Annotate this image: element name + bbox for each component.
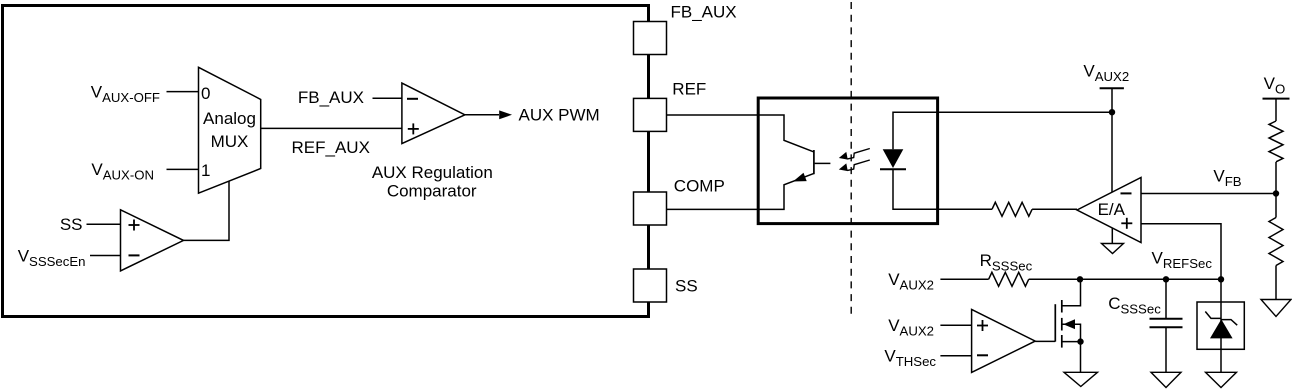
ground below EA [1102, 228, 1124, 254]
wire mux output REF_AUX to comparator plus input [261, 127, 402, 129]
svg-text:Comparator: Comparator [387, 181, 477, 200]
wire RSSSec to VREFSec node [1029, 278, 1221, 280]
phototransistor emitter arrow [793, 173, 807, 182]
svg-text:SS: SS [675, 276, 698, 295]
plus sign U5 [977, 320, 988, 331]
resistor RSSSec [989, 272, 1029, 286]
svg-text:1: 1 [201, 161, 210, 180]
ground below capacitor [1151, 372, 1181, 387]
isolation barrier dashed line [850, 2, 852, 318]
wire comparator output [465, 114, 499, 116]
comparator U2 AUX regulation [402, 83, 465, 144]
MOSFET Q1 channel segment drain [1061, 300, 1063, 313]
wire VTHSec to U5 minus [940, 355, 971, 357]
svg-text:VAUX-OFF: VAUX-OFF [91, 82, 160, 105]
MOSFET Q1 channel segment source [1061, 335, 1063, 348]
zener D2 vertical wire [1220, 302, 1222, 349]
junction dot capacitor top [1163, 276, 1169, 282]
resistor R2 upper divider [1269, 121, 1283, 162]
svg-text:VSSSecEn: VSSSecEn [18, 246, 86, 269]
phototransistor base lead [815, 162, 831, 164]
MOSFET Q1 gate bar [1054, 304, 1056, 341]
svg-text:AUX Regulation: AUX Regulation [372, 163, 493, 182]
plus sign U2 [408, 123, 419, 134]
MOSFET Q1 channel segment body [1061, 318, 1063, 331]
ground below MOSFET source [1064, 372, 1098, 386]
light arrow 1 [839, 149, 870, 160]
LED cathode bar [880, 168, 906, 170]
junction dot source [1077, 338, 1083, 344]
LED cathode wire to resistor [893, 169, 992, 209]
minus sign EA [1121, 192, 1132, 194]
svg-text:AUX PWM: AUX PWM [519, 105, 600, 124]
svg-text:0: 0 [201, 84, 210, 103]
svg-text:CSSSec: CSSSec [1108, 294, 1161, 317]
svg-text:RSSSec: RSSSec [980, 251, 1033, 274]
op-amp EA error amplifier [1077, 178, 1141, 243]
capacitor CSSSec [1150, 279, 1183, 372]
wire VREFSec node to zener [1220, 279, 1222, 302]
wire R3 to ground [1275, 266, 1277, 300]
zener reference box [1197, 302, 1244, 349]
ground below R3 [1261, 300, 1291, 317]
zener D2 cathode bar [1205, 312, 1237, 326]
plus sign U3 [129, 220, 140, 231]
wire U3 output to mux select [184, 181, 230, 240]
svg-text:VAUX2: VAUX2 [888, 316, 934, 339]
wire REF pin to phototransistor collector [667, 115, 814, 152]
wire VAUX2 to RSSSec [940, 278, 988, 280]
ground below zener [1206, 372, 1237, 387]
svg-text:VAUX-ON: VAUX-ON [91, 160, 154, 183]
IC block outline U1 [3, 6, 649, 317]
pin SS [634, 269, 667, 302]
MOSFET Q1 body wire [1062, 324, 1081, 341]
wire zener to ground [1220, 349, 1222, 372]
wire FB_AUX to comparator minus input [373, 97, 402, 99]
svg-text:FB_AUX: FB_AUX [671, 3, 737, 22]
wire SS to U3 plus [87, 223, 121, 225]
phototransistor base bar [813, 150, 815, 174]
svg-text:SS: SS [60, 215, 83, 234]
svg-text:Analog: Analog [203, 109, 256, 128]
svg-text:VFB: VFB [1213, 167, 1241, 190]
wire EA minus input VFB [1141, 193, 1276, 195]
MOSFET Q1 drain wire [1062, 279, 1081, 306]
comparator U5 secondary [972, 309, 1036, 372]
wire resistor to EA output [1032, 208, 1077, 210]
svg-text:VAUX2: VAUX2 [888, 270, 934, 293]
svg-text:E/A: E/A [1098, 200, 1126, 219]
wire U5 output to MOSFET gate [1035, 340, 1055, 342]
phototransistor emitter and wire to COMP pin [667, 173, 814, 209]
analog mux A1 [199, 67, 261, 193]
wire EA plus input to VREFSec node [1141, 224, 1221, 279]
junction dot VFB [1273, 190, 1279, 196]
LED D1 triangle [883, 149, 904, 168]
plus sign EA [1121, 218, 1132, 229]
svg-text:VAUX2: VAUX2 [1083, 62, 1129, 85]
mux label Analog MUX [203, 109, 256, 151]
resistor R3 lower divider [1269, 218, 1283, 266]
minus sign U3 [129, 254, 140, 256]
svg-text:REF: REF [672, 79, 706, 98]
svg-text:VO: VO [1264, 74, 1286, 97]
minus sign U2 [407, 98, 418, 100]
pin FB_AUX [634, 22, 667, 55]
svg-text:VTHSec: VTHSec [884, 347, 936, 370]
comparator U3 soft-start [121, 210, 184, 271]
LED anode wire to VAUX2 node [893, 112, 1112, 149]
wire VSSSecEn to U3 minus [90, 255, 121, 257]
pin REF [634, 98, 667, 131]
light arrow 2 [839, 160, 870, 171]
svg-text:FB_AUX: FB_AUX [298, 88, 364, 107]
arrowhead AUX PWM [499, 110, 512, 119]
minus sign U5 [977, 354, 988, 356]
MOSFET Q1 source wire [1062, 342, 1081, 373]
MOSFET Q1 body arrow [1063, 319, 1075, 329]
junction dot MOSFET drain [1077, 276, 1083, 282]
optocoupler body U4 [758, 98, 937, 224]
svg-text:COMP: COMP [674, 176, 725, 195]
wire VAUX2 to U5 plus [940, 324, 971, 326]
wire VAUX-OFF to mux input 0 [167, 91, 199, 93]
svg-text:REF_AUX: REF_AUX [292, 138, 370, 157]
junction dot VREFSec [1218, 276, 1224, 282]
svg-text:MUX: MUX [211, 132, 249, 151]
label AUX Regulation Comparator [372, 163, 493, 200]
junction dot VAUX2 top [1109, 109, 1115, 115]
supply VO [1263, 99, 1290, 121]
wire VAUX-ON to mux input 1 [167, 168, 199, 170]
supply VAUX2 top [1100, 88, 1124, 192]
zener D2 triangle [1210, 319, 1233, 338]
resistor R1 optocoupler series [992, 202, 1032, 216]
wire R2 to VFB node [1275, 162, 1277, 218]
pin COMP [634, 192, 667, 225]
svg-text:VREFSec: VREFSec [1152, 249, 1213, 272]
